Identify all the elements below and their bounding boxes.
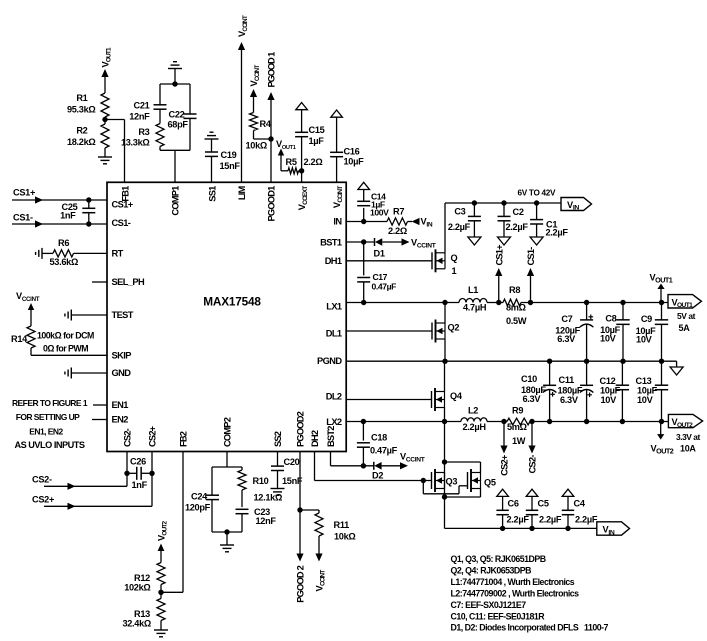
svg-text:Q4: Q4 bbox=[450, 391, 463, 401]
svg-text:D1: D1 bbox=[374, 249, 385, 259]
svg-text:Q5: Q5 bbox=[484, 478, 496, 488]
svg-text:10kΩ: 10kΩ bbox=[246, 141, 268, 151]
svg-text:10V: 10V bbox=[637, 395, 654, 405]
svg-text:100V: 100V bbox=[370, 208, 389, 218]
svg-text:10V: 10V bbox=[600, 334, 617, 344]
svg-text:1nF: 1nF bbox=[60, 211, 76, 221]
svg-text:PGOOD 1: PGOOD 1 bbox=[267, 52, 277, 88]
svg-text:R10: R10 bbox=[253, 476, 269, 486]
svg-text:Q3: Q3 bbox=[446, 477, 458, 487]
svg-text:1nF: 1nF bbox=[132, 480, 148, 490]
svg-text:R8: R8 bbox=[509, 285, 520, 295]
svg-text:BST2: BST2 bbox=[326, 426, 336, 447]
svg-text:10µF: 10µF bbox=[344, 157, 365, 167]
svg-text:10V: 10V bbox=[636, 335, 653, 345]
svg-text:C19: C19 bbox=[221, 150, 237, 160]
svg-text:C11: C11 bbox=[559, 375, 575, 385]
svg-text:C10: C10 bbox=[521, 374, 537, 384]
svg-text:C18: C18 bbox=[371, 433, 387, 443]
svg-text:C21: C21 bbox=[134, 101, 150, 111]
svg-text:C15: C15 bbox=[309, 125, 325, 135]
svg-text:5mΩ: 5mΩ bbox=[507, 422, 527, 432]
svg-text:R7: R7 bbox=[393, 207, 404, 217]
svg-text:CS1-: CS1- bbox=[526, 247, 536, 266]
svg-text:CS2+: CS2+ bbox=[148, 425, 158, 447]
svg-text:SKIP: SKIP bbox=[112, 350, 132, 360]
svg-text:C9: C9 bbox=[641, 314, 652, 324]
svg-text:3.3V at: 3.3V at bbox=[676, 432, 701, 442]
svg-text:CS1-: CS1- bbox=[13, 213, 33, 223]
svg-text:MAX17548: MAX17548 bbox=[203, 295, 261, 309]
svg-text:Q: Q bbox=[451, 253, 458, 263]
svg-text:12nF: 12nF bbox=[256, 516, 277, 526]
svg-text:SS1: SS1 bbox=[208, 186, 218, 202]
svg-text:0.47µF: 0.47µF bbox=[372, 282, 397, 292]
svg-text:C7: EEF-SX0J121E7: C7: EEF-SX0J121E7 bbox=[451, 600, 527, 610]
svg-text:EN1, EN2: EN1, EN2 bbox=[29, 427, 63, 437]
svg-text:0.47µF: 0.47µF bbox=[370, 446, 398, 456]
svg-text:10µF: 10µF bbox=[637, 386, 658, 396]
svg-text:LX1: LX1 bbox=[326, 302, 342, 312]
svg-text:CS2-: CS2- bbox=[123, 428, 133, 447]
svg-text:SS2: SS2 bbox=[273, 431, 283, 447]
svg-text:15nF: 15nF bbox=[282, 476, 303, 486]
svg-text:IN: IN bbox=[333, 217, 342, 227]
svg-text:18.2kΩ: 18.2kΩ bbox=[67, 137, 96, 147]
svg-text:L1: L1 bbox=[468, 285, 478, 295]
svg-text:PGND: PGND bbox=[317, 356, 342, 366]
svg-text:2.2µF: 2.2µF bbox=[575, 515, 598, 525]
svg-text:COMP1: COMP1 bbox=[171, 186, 181, 216]
svg-text:GND: GND bbox=[112, 368, 132, 378]
svg-text:DL1: DL1 bbox=[326, 329, 342, 339]
svg-text:120pF: 120pF bbox=[185, 503, 211, 513]
svg-text:C8: C8 bbox=[605, 314, 616, 324]
svg-text:C3: C3 bbox=[454, 207, 465, 217]
svg-text:10µF: 10µF bbox=[600, 386, 621, 396]
svg-text:6.3V: 6.3V bbox=[560, 395, 579, 405]
svg-text:C4: C4 bbox=[574, 499, 586, 509]
svg-text:L1:744771004 , Wurth Electroni: L1:744771004 , Wurth Electronics bbox=[451, 577, 575, 587]
svg-text:5V at: 5V at bbox=[677, 311, 696, 321]
svg-text:TEST: TEST bbox=[112, 310, 134, 320]
svg-text:0Ω for PWM: 0Ω for PWM bbox=[43, 344, 88, 354]
svg-text:2.2Ω: 2.2Ω bbox=[304, 157, 323, 167]
svg-text:C24: C24 bbox=[191, 492, 208, 502]
svg-text:PGOOD2: PGOOD2 bbox=[296, 411, 306, 447]
svg-text:R14: R14 bbox=[11, 334, 28, 344]
svg-text:CS2+: CS2+ bbox=[32, 495, 54, 505]
svg-text:SEL_PH: SEL_PH bbox=[112, 277, 145, 287]
svg-text:CS1+: CS1+ bbox=[494, 244, 504, 266]
svg-text:C22: C22 bbox=[169, 110, 185, 120]
svg-text:C26: C26 bbox=[130, 457, 146, 467]
svg-text:R6: R6 bbox=[58, 238, 69, 248]
svg-text:12.1kΩ: 12.1kΩ bbox=[254, 493, 283, 503]
svg-text:C20: C20 bbox=[284, 457, 300, 467]
svg-text:C7: C7 bbox=[561, 314, 572, 324]
svg-text:BST1: BST1 bbox=[320, 238, 342, 248]
svg-text:C17: C17 bbox=[373, 272, 388, 282]
svg-text:53.6kΩ: 53.6kΩ bbox=[50, 257, 79, 267]
svg-text:D2: D2 bbox=[372, 471, 383, 481]
svg-text:R3: R3 bbox=[138, 127, 149, 137]
svg-text:R11: R11 bbox=[334, 520, 350, 530]
svg-text:102kΩ: 102kΩ bbox=[124, 583, 150, 593]
svg-text:C13: C13 bbox=[636, 376, 652, 386]
svg-text:95.3kΩ: 95.3kΩ bbox=[67, 105, 96, 115]
svg-text:2.2Ω: 2.2Ω bbox=[388, 226, 407, 236]
svg-text:5A: 5A bbox=[679, 323, 691, 333]
svg-text:8mΩ: 8mΩ bbox=[506, 303, 526, 313]
svg-text:FOR SETTING UP: FOR SETTING UP bbox=[16, 412, 80, 422]
svg-text:Q1, Q3, Q5: RJK0651DPB: Q1, Q3, Q5: RJK0651DPB bbox=[451, 554, 546, 564]
svg-text:2.2µF: 2.2µF bbox=[448, 222, 471, 232]
svg-text:PGOOD1: PGOOD1 bbox=[267, 186, 277, 222]
svg-text:AS UVLO INPUTS: AS UVLO INPUTS bbox=[14, 440, 84, 450]
svg-text:LX2: LX2 bbox=[326, 417, 342, 427]
svg-text:12nF: 12nF bbox=[129, 112, 150, 122]
svg-text:1: 1 bbox=[452, 266, 457, 276]
svg-text:10A: 10A bbox=[680, 444, 696, 454]
svg-text:L2:7447709002 , Wurth Electron: L2:7447709002 , Wurth Electronics bbox=[451, 588, 580, 598]
svg-text:R1: R1 bbox=[76, 93, 87, 103]
svg-text:D1, D2: Diodes Incorporated DF: D1, D2: Diodes Incorporated DFLS 1100-7 bbox=[451, 623, 609, 633]
svg-text:L2: L2 bbox=[468, 406, 478, 416]
svg-text:CS2-: CS2- bbox=[527, 455, 537, 474]
svg-text:6V TO 42V: 6V TO 42V bbox=[518, 189, 556, 198]
svg-text:FB2: FB2 bbox=[179, 431, 189, 447]
svg-text:2.2µF: 2.2µF bbox=[507, 515, 530, 525]
svg-text:0.5W: 0.5W bbox=[506, 316, 527, 326]
svg-text:Q2, Q4: RJK0653DPB: Q2, Q4: RJK0653DPB bbox=[451, 565, 532, 575]
svg-text:4.7µH: 4.7µH bbox=[463, 303, 487, 313]
svg-text:DH1: DH1 bbox=[325, 256, 342, 266]
svg-text:2.2µF: 2.2µF bbox=[539, 515, 562, 525]
svg-text:6.3V: 6.3V bbox=[557, 334, 576, 344]
svg-text:CS2-: CS2- bbox=[32, 475, 52, 485]
svg-text:C2: C2 bbox=[513, 207, 524, 217]
svg-text:13.3kΩ: 13.3kΩ bbox=[121, 138, 150, 148]
svg-text:1µF: 1µF bbox=[309, 136, 325, 146]
svg-text:DL2: DL2 bbox=[326, 392, 342, 402]
svg-text:COMP2: COMP2 bbox=[223, 417, 233, 447]
svg-text:RT: RT bbox=[112, 249, 124, 259]
svg-text:CS2+: CS2+ bbox=[499, 454, 509, 476]
svg-text:6.3V: 6.3V bbox=[523, 394, 542, 404]
svg-text:PGOOD 2: PGOOD 2 bbox=[296, 565, 306, 602]
svg-text:EN1: EN1 bbox=[112, 400, 129, 410]
svg-text:EN2: EN2 bbox=[112, 415, 129, 425]
svg-text:CS1+: CS1+ bbox=[13, 188, 35, 198]
svg-text:R5: R5 bbox=[286, 157, 297, 167]
svg-text:10V: 10V bbox=[601, 395, 618, 405]
svg-text:2.2µF: 2.2µF bbox=[506, 222, 529, 232]
svg-text:R12: R12 bbox=[134, 573, 150, 583]
svg-text:C10, C11: EEF-SE0J181R: C10, C11: EEF-SE0J181R bbox=[451, 611, 546, 621]
svg-text:180µF: 180µF bbox=[558, 385, 583, 395]
svg-text:CS1+: CS1+ bbox=[112, 200, 134, 210]
svg-text:C12: C12 bbox=[600, 376, 616, 386]
svg-text:CS1-: CS1- bbox=[112, 218, 131, 228]
svg-text:C5: C5 bbox=[538, 499, 549, 509]
svg-text:32.4kΩ: 32.4kΩ bbox=[122, 619, 151, 629]
svg-text:15nF: 15nF bbox=[220, 161, 241, 171]
svg-text:100kΩ for DCM: 100kΩ for DCM bbox=[37, 331, 94, 341]
svg-text:R2: R2 bbox=[76, 126, 87, 136]
svg-text:C16: C16 bbox=[344, 147, 360, 157]
svg-text:R4: R4 bbox=[260, 119, 272, 129]
svg-text:C6: C6 bbox=[508, 499, 519, 509]
svg-text:R13: R13 bbox=[134, 609, 150, 619]
svg-text:68pF: 68pF bbox=[168, 120, 189, 130]
svg-text:1W: 1W bbox=[512, 436, 526, 446]
svg-text:Q2: Q2 bbox=[448, 323, 460, 333]
svg-text:R9: R9 bbox=[512, 406, 523, 416]
svg-text:10kΩ: 10kΩ bbox=[334, 532, 356, 542]
svg-text:2.2µH: 2.2µH bbox=[463, 422, 487, 432]
svg-text:DH2: DH2 bbox=[310, 430, 320, 447]
svg-text:2.2µF: 2.2µF bbox=[546, 228, 569, 238]
svg-text:LIM: LIM bbox=[237, 185, 247, 200]
svg-text:REFER TO FIGURE 1: REFER TO FIGURE 1 bbox=[12, 398, 88, 408]
